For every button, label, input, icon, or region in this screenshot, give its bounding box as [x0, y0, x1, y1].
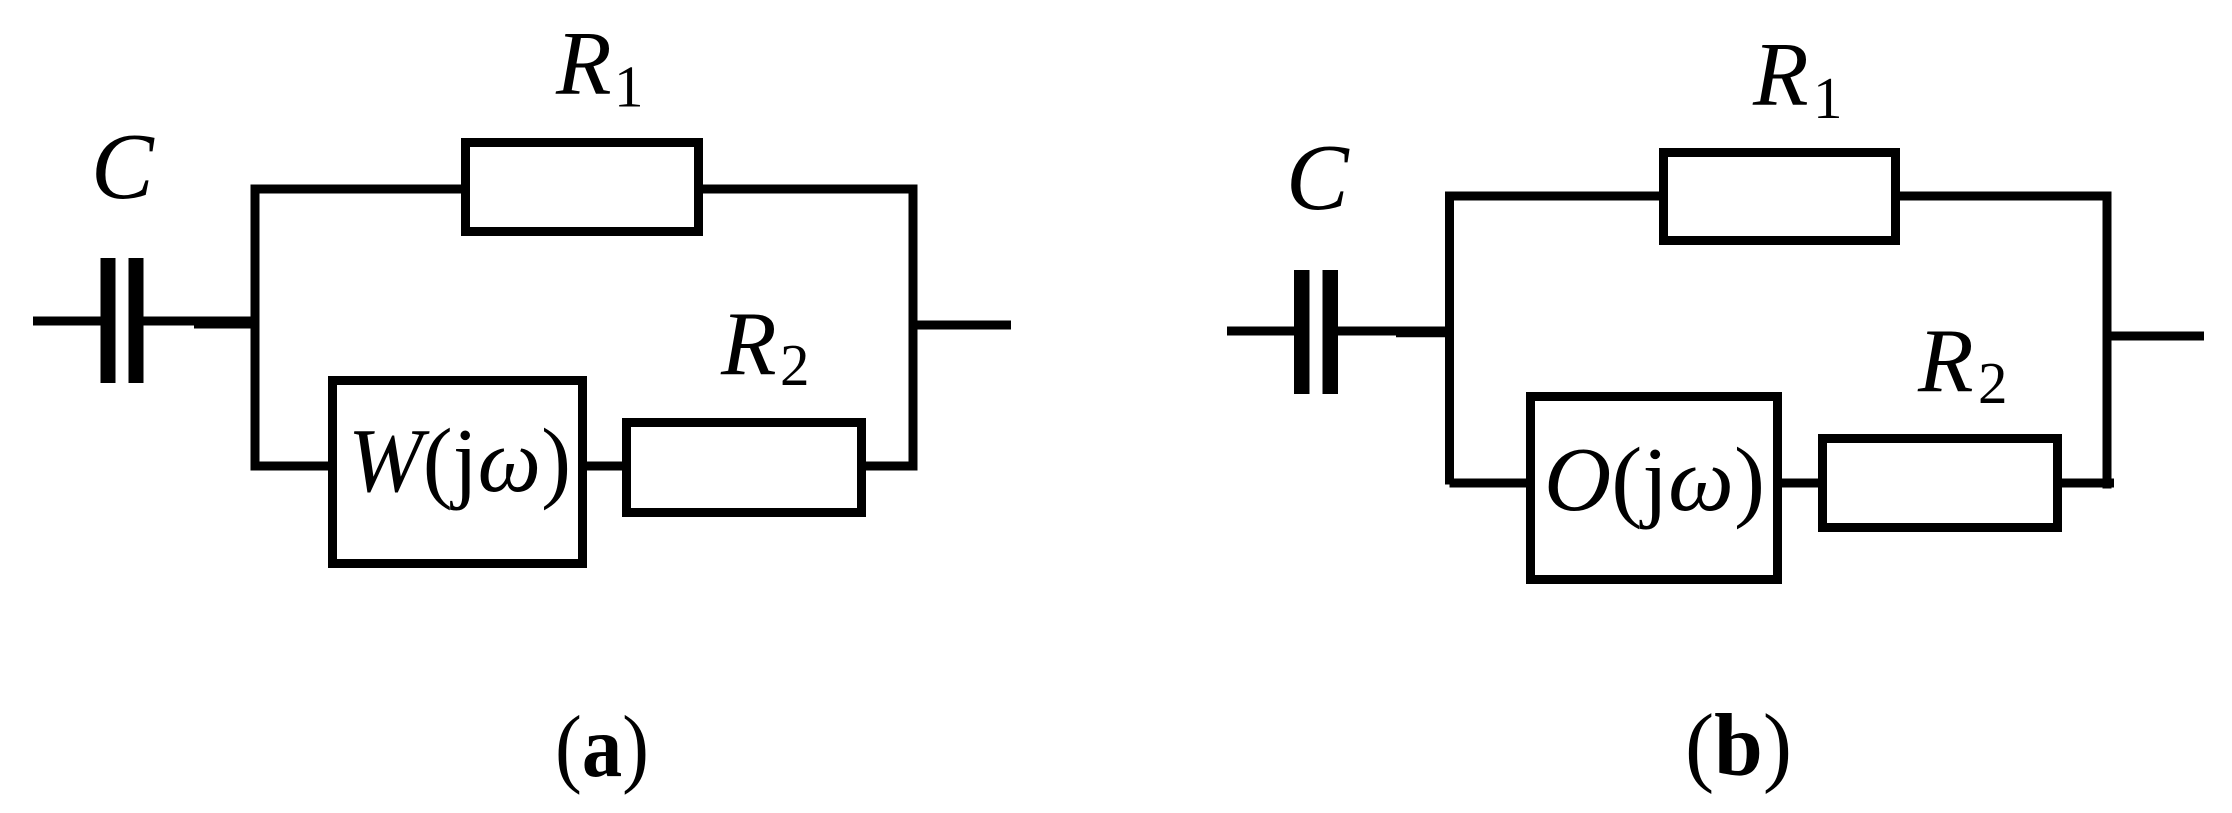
label R1 (b) — [1752, 24, 1843, 132]
label R2 (b) — [1917, 310, 2008, 416]
constant phase element O (b) — [1531, 397, 1778, 580]
label C (b) — [1286, 126, 1350, 230]
caption (b) — [1685, 697, 1792, 795]
svg-text:C: C — [1286, 126, 1350, 230]
capacitor C (a) right plate — [129, 258, 144, 383]
label R2 (a) — [720, 293, 810, 398]
svg-text:R: R — [1917, 310, 1974, 411]
wire: capacitor C to node (a) — [143, 317, 260, 326]
label R1 (a) — [555, 13, 644, 120]
wire: bottom branch (b) — [1450, 479, 2115, 488]
svg-text:R: R — [720, 293, 777, 394]
wire: input lead of capacitor C (b) — [1227, 327, 1297, 336]
capacitor C (b) right plate — [1323, 270, 1339, 394]
svg-text:W(jω): W(jω) — [348, 410, 571, 511]
svg-text:1: 1 — [1813, 65, 1843, 131]
wire: parallel loop left/top/right (b) — [1450, 196, 2108, 489]
label C (a) — [91, 115, 155, 219]
svg-text:2: 2 — [1978, 350, 2008, 416]
svg-text:R: R — [555, 13, 612, 114]
svg-text:1: 1 — [614, 54, 644, 120]
resistor R1 (a) — [466, 143, 699, 232]
svg-text:2: 2 — [780, 332, 810, 398]
Warburg element W (a) — [333, 381, 583, 564]
capacitor C (a) left plate — [101, 258, 116, 383]
wire: input lead of capacitor C (a) — [33, 317, 103, 326]
label W(jω) (a) — [348, 410, 571, 511]
capacitor C (b) left plate — [1294, 270, 1310, 394]
wire: overlapping lead segment at node (a) — [194, 320, 257, 329]
wire: output lead (a) — [913, 321, 1011, 330]
resistor R1 (b) — [1664, 153, 1896, 241]
resistor R2 (b) — [1823, 439, 2058, 528]
wire: overlapping lead segment at node (b) — [1396, 328, 1452, 337]
svg-text:(b): (b) — [1685, 697, 1792, 795]
resistor R2 (a) — [627, 423, 862, 513]
svg-text:O(jω): O(jω) — [1544, 429, 1765, 530]
wire: output lead (b) — [2107, 332, 2204, 341]
caption (a) — [555, 699, 649, 796]
svg-text:C: C — [91, 115, 155, 219]
wire: capacitor C to node (b) — [1337, 327, 1454, 336]
wire: bottom branch (a) — [255, 462, 917, 471]
wire: parallel loop left/top/right (a) — [255, 189, 913, 471]
svg-text:(a): (a) — [555, 699, 649, 796]
svg-text:R: R — [1752, 24, 1809, 125]
label O(jω) (b) — [1544, 429, 1765, 530]
